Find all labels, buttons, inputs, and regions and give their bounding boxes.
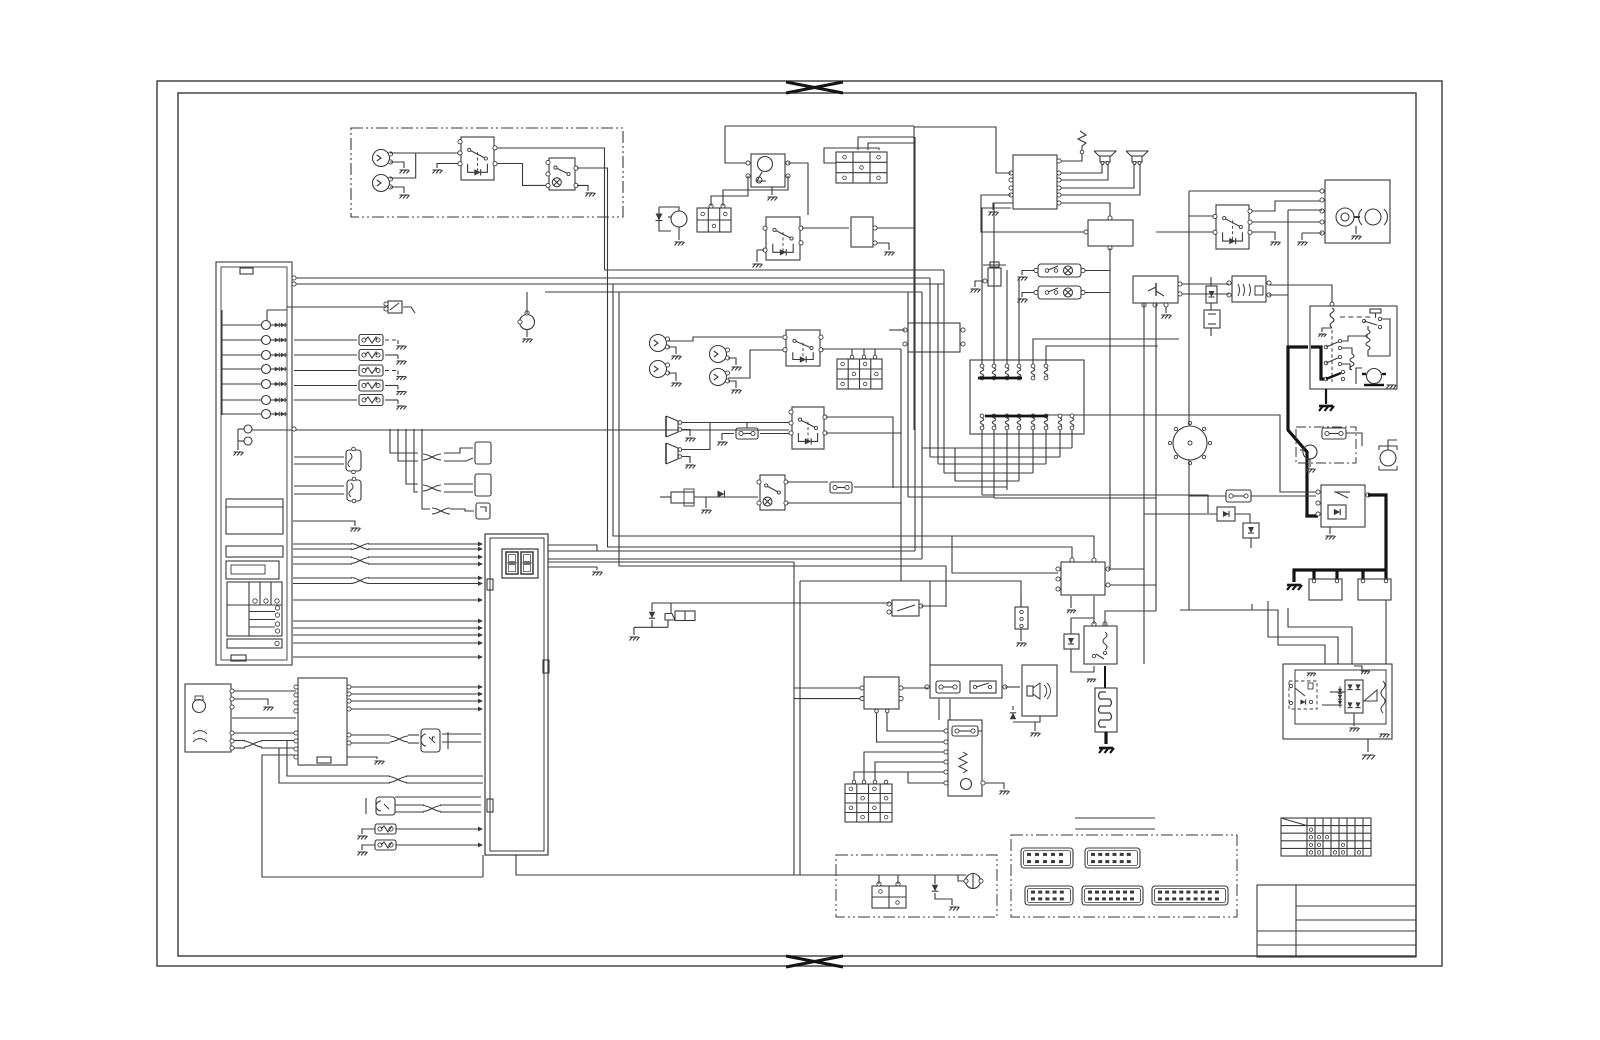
wire — [292, 277, 930, 279]
wire — [351, 693, 481, 695]
wire — [232, 717, 296, 719]
starter motor — [1367, 369, 1382, 384]
wire — [293, 620, 481, 622]
switch contact — [1362, 319, 1365, 322]
fuse switch box — [930, 665, 1002, 698]
panel bar — [226, 546, 283, 557]
fan motor — [1303, 445, 1317, 459]
fuse — [1226, 490, 1251, 502]
wire — [1032, 430, 1034, 473]
diode — [934, 875, 936, 884]
wire — [725, 125, 914, 127]
wire — [794, 687, 860, 689]
wire — [1071, 617, 1094, 619]
wire — [548, 567, 597, 570]
stator box — [298, 678, 347, 765]
ground — [668, 347, 676, 354]
ground — [264, 706, 273, 708]
wire — [294, 456, 344, 458]
ground thick — [1294, 570, 1314, 582]
wire — [442, 741, 481, 743]
twisted pair — [390, 736, 408, 742]
wire thick — [1288, 347, 1318, 516]
headlight bulb — [650, 335, 667, 352]
ground — [682, 430, 690, 437]
solenoid small — [651, 603, 653, 611]
ground — [1020, 629, 1022, 641]
diode assembly — [1217, 507, 1235, 521]
wire — [252, 429, 789, 431]
cone — [1364, 690, 1377, 701]
capacitor — [1370, 309, 1381, 313]
diode — [656, 214, 663, 221]
connector 3p — [1015, 607, 1028, 629]
wire — [267, 309, 287, 311]
ground — [397, 400, 399, 404]
wire — [800, 581, 1021, 607]
wire — [577, 168, 608, 270]
wire — [659, 207, 671, 231]
fuse box — [837, 359, 882, 389]
wire — [1367, 739, 1369, 752]
wire — [854, 772, 944, 782]
wire — [548, 558, 922, 560]
wire — [981, 430, 983, 495]
twisted pair — [423, 485, 441, 491]
ground — [705, 497, 707, 508]
ground — [526, 330, 528, 337]
panel tab — [231, 655, 246, 661]
fuse table — [1281, 818, 1371, 856]
wire — [877, 713, 945, 742]
regulator coil — [1366, 330, 1370, 350]
neutral switch — [892, 600, 919, 616]
title block — [1257, 885, 1416, 957]
sensor resistor — [359, 335, 383, 346]
wire — [993, 430, 995, 498]
kill switch — [760, 475, 785, 510]
diode assembly — [1206, 286, 1217, 303]
wire — [390, 153, 416, 178]
fuse — [830, 482, 852, 493]
indicator lamp — [262, 351, 271, 360]
ground — [1380, 733, 1389, 735]
connector block — [970, 360, 1084, 434]
ground — [1087, 678, 1095, 680]
pins bottom row — [980, 414, 984, 418]
connector — [1152, 886, 1228, 905]
ground — [577, 185, 588, 191]
sensor resistor — [375, 840, 396, 850]
connector — [476, 503, 490, 519]
coil assembly — [948, 720, 982, 796]
wire — [1288, 608, 1352, 664]
panel pin — [292, 276, 296, 280]
wire — [1085, 292, 1110, 294]
diode column — [1338, 689, 1342, 693]
bridge rectifier — [1345, 680, 1363, 713]
fuse — [1322, 428, 1346, 439]
wire — [1330, 691, 1345, 693]
wire — [1048, 415, 1316, 492]
wire — [287, 306, 386, 308]
wire pair twisted — [395, 804, 424, 806]
wire — [608, 270, 1073, 560]
motor — [961, 779, 972, 790]
indicator lamp — [262, 410, 271, 419]
connector — [1085, 848, 1140, 868]
top cut mark — [786, 82, 843, 93]
ground — [985, 783, 1004, 789]
headlight assembly box — [1325, 180, 1390, 243]
wire — [907, 292, 909, 497]
wire — [1061, 164, 1134, 188]
wire — [1252, 604, 1325, 664]
wire — [1061, 154, 1082, 161]
wire — [794, 602, 889, 604]
wire — [390, 152, 458, 154]
ground — [1271, 241, 1280, 243]
wire — [1189, 215, 1214, 217]
diode — [718, 491, 725, 498]
wire — [351, 734, 390, 736]
diode assembly — [1204, 310, 1220, 328]
wire — [422, 429, 430, 509]
wire — [293, 656, 481, 658]
ground — [1022, 293, 1034, 298]
wire — [908, 772, 944, 783]
headlight low beam — [1365, 209, 1381, 225]
wire — [1188, 191, 1190, 420]
diode — [1013, 716, 1040, 722]
ground — [1329, 527, 1331, 534]
wire — [794, 698, 860, 700]
battery — [872, 886, 906, 908]
pickup coil connector — [421, 729, 440, 752]
LCD box — [226, 499, 283, 534]
wire — [1046, 346, 1158, 364]
wire — [1061, 164, 1102, 173]
wire — [682, 422, 789, 424]
wire — [1252, 201, 1322, 211]
wire — [516, 855, 966, 875]
wire — [1109, 248, 1111, 569]
wire — [958, 875, 964, 881]
diode assembly — [1064, 634, 1079, 649]
wire — [351, 708, 481, 710]
battery — [1358, 579, 1391, 600]
wire — [1288, 209, 1322, 211]
panel bottom bar — [227, 639, 282, 648]
twisted pair — [432, 508, 450, 514]
wire — [294, 385, 357, 387]
horn speaker — [665, 416, 667, 437]
wire — [444, 483, 473, 485]
thermo unit — [388, 301, 402, 313]
bulb — [710, 369, 727, 386]
wire — [1006, 270, 1008, 364]
wire — [1252, 221, 1322, 223]
rectifier box — [851, 217, 873, 247]
wire — [1143, 303, 1145, 664]
turn signal switch — [792, 407, 824, 449]
wire — [1188, 460, 1190, 610]
switch contacts — [1324, 345, 1328, 349]
brake switch capsule — [1038, 264, 1081, 277]
wire — [787, 481, 828, 483]
ECU tab — [487, 579, 493, 590]
wire — [234, 732, 296, 734]
ground — [397, 340, 399, 344]
ground — [390, 187, 404, 193]
wire — [746, 423, 748, 429]
wire — [1269, 294, 1288, 296]
wire — [1061, 164, 1108, 180]
wire — [1302, 232, 1322, 234]
wire — [944, 472, 1033, 474]
headlight bulb — [650, 361, 667, 378]
wire — [351, 700, 481, 702]
wire — [1110, 584, 1156, 586]
ignition coil — [988, 268, 1001, 286]
wire — [1006, 430, 1008, 490]
diode assembly — [1243, 523, 1259, 538]
wire — [1189, 495, 1226, 497]
wire — [929, 581, 931, 665]
starter motor — [671, 211, 687, 227]
headlight bulb — [373, 175, 390, 192]
instrument panel — [216, 262, 292, 665]
wire — [1180, 609, 1252, 611]
main switch — [751, 154, 785, 187]
ground — [362, 845, 375, 850]
wire — [921, 605, 946, 607]
wire — [954, 448, 956, 481]
ground — [682, 457, 690, 464]
bottom cut mark — [786, 956, 843, 967]
wire — [526, 292, 528, 314]
panel tab — [240, 268, 253, 274]
headlight switch — [786, 330, 820, 366]
wire — [1033, 339, 1179, 364]
bus bar thick — [985, 415, 1048, 418]
ground thick — [1104, 732, 1107, 744]
dash-dot enclosure battery — [836, 855, 997, 917]
wire — [913, 126, 915, 430]
wire — [396, 844, 481, 846]
wire — [497, 148, 605, 270]
diode — [1300, 699, 1305, 704]
ground — [1387, 384, 1396, 386]
panel connector box — [227, 582, 282, 636]
wire — [444, 448, 473, 453]
ECU tab — [543, 660, 549, 673]
wire — [994, 497, 1156, 499]
wire — [1018, 278, 1020, 364]
wire pair twisted — [293, 577, 352, 579]
ground — [1307, 672, 1315, 674]
wire — [858, 137, 914, 150]
wire — [548, 545, 597, 551]
wire — [875, 762, 944, 782]
wire — [1346, 433, 1362, 446]
wire — [822, 348, 901, 350]
starter cut relay — [1321, 485, 1365, 527]
regulator coil — [1350, 354, 1354, 370]
wire pair twisted — [287, 741, 390, 777]
wire — [1105, 611, 1156, 626]
battery — [1309, 579, 1342, 600]
ground — [971, 288, 980, 290]
wire pair twisted — [234, 740, 245, 742]
wire thick bus — [1314, 568, 1386, 571]
wire — [682, 423, 710, 450]
ground — [771, 187, 773, 195]
wire — [760, 433, 789, 435]
wire — [1045, 430, 1047, 464]
wire — [922, 447, 1072, 449]
wire thick — [1368, 495, 1386, 570]
battery block — [697, 208, 731, 232]
wire — [1156, 231, 1214, 233]
headlight high beam — [1336, 208, 1354, 226]
generator box — [185, 684, 231, 752]
brake switch capsule — [1038, 286, 1081, 299]
ground — [668, 373, 676, 381]
wire — [293, 599, 481, 601]
ground — [1070, 596, 1072, 608]
wire — [1061, 203, 1110, 218]
horn speaker — [1126, 151, 1148, 156]
ground — [1325, 389, 1327, 404]
panel box — [226, 561, 279, 579]
wire pair twisted — [293, 543, 352, 545]
wire — [497, 164, 547, 186]
wire — [294, 339, 357, 341]
wire — [914, 127, 1011, 173]
dash-dot enclosure lighting — [351, 128, 623, 217]
wire — [938, 699, 940, 720]
wire — [668, 337, 783, 341]
wire — [1287, 210, 1289, 347]
wire — [887, 713, 944, 731]
wire — [294, 399, 357, 401]
wire — [403, 307, 415, 313]
wire — [981, 195, 1086, 232]
meter lamp — [244, 425, 252, 433]
ground — [993, 203, 1013, 210]
lamp — [966, 874, 981, 889]
label line — [1075, 828, 1155, 830]
ground — [633, 627, 635, 635]
wire — [1188, 420, 1190, 426]
indicator lamp — [262, 396, 271, 405]
headlamp relay — [1216, 205, 1249, 249]
7-segment display — [502, 549, 538, 578]
wire — [788, 163, 808, 215]
wire — [1108, 568, 1144, 570]
dimmer switch — [461, 137, 494, 180]
wire — [938, 463, 1046, 465]
wire — [826, 432, 901, 434]
wire — [548, 550, 915, 552]
wire — [1251, 495, 1316, 497]
wire — [605, 269, 945, 271]
ground — [728, 358, 736, 365]
ground — [722, 434, 734, 441]
connector — [1025, 886, 1073, 905]
wire — [725, 126, 748, 163]
main switch assembly box — [1310, 306, 1397, 389]
dash-dot enclosure connectors — [1011, 835, 1237, 917]
wire — [1020, 595, 1022, 607]
wire — [877, 227, 914, 229]
wire — [921, 292, 923, 559]
mark — [447, 732, 449, 749]
flasher relay — [1232, 276, 1266, 302]
connector — [1082, 886, 1143, 905]
wire — [234, 690, 296, 692]
wire — [900, 349, 902, 581]
ground — [397, 371, 399, 375]
twisted pair — [423, 454, 441, 460]
wire — [1252, 232, 1275, 240]
wire — [1269, 285, 1332, 306]
wire — [868, 143, 914, 150]
wire — [982, 495, 1208, 513]
wire — [878, 875, 880, 884]
wire — [406, 429, 418, 484]
wire — [619, 292, 946, 607]
connector — [475, 442, 491, 464]
antenna — [1078, 131, 1086, 150]
wire — [1144, 513, 1217, 515]
horn — [1380, 450, 1396, 466]
indicator lamp — [262, 365, 271, 374]
connector sensor — [347, 480, 361, 501]
wire — [262, 755, 483, 877]
wire — [943, 270, 945, 473]
generator — [193, 700, 206, 713]
fuse box — [836, 152, 887, 183]
ground — [1034, 722, 1036, 731]
wire — [824, 148, 879, 163]
wire — [949, 699, 951, 720]
connector sensor — [346, 450, 361, 471]
wire — [652, 602, 794, 604]
wire — [294, 354, 357, 356]
ground — [237, 447, 239, 450]
wire — [1071, 430, 1073, 448]
indicator lamp — [262, 380, 271, 389]
starter relay — [766, 217, 800, 260]
regulator rectifier — [1061, 562, 1105, 595]
wire — [1182, 293, 1229, 295]
wire — [395, 796, 481, 798]
wire — [442, 733, 481, 735]
ground — [1354, 666, 1362, 670]
wire — [937, 284, 939, 464]
wire — [390, 429, 418, 453]
dash-dot enclosure fan — [1296, 427, 1356, 463]
wire — [993, 203, 995, 364]
wire — [294, 370, 357, 372]
wire — [293, 634, 481, 636]
wire — [1189, 190, 1322, 192]
wire — [234, 699, 268, 705]
sensor resistor — [359, 395, 383, 406]
indicator lamp — [262, 336, 271, 345]
